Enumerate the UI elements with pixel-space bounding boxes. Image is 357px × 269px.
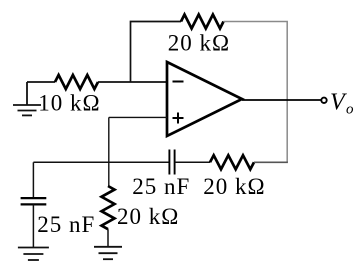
wire: left branch vertical to C1: [32, 162, 34, 198]
svg-text:20 kΩ: 20 kΩ: [117, 204, 179, 229]
capacitor 25 nF series C2: [169, 150, 174, 175]
svg-text:10 kΩ: 10 kΩ: [38, 91, 100, 116]
resistor 10 kOhm input R2: [55, 75, 98, 89]
svg-text:20 kΩ: 20 kΩ: [203, 174, 265, 199]
op-amp plus sign: [173, 113, 184, 124]
ground (under C1): [18, 248, 49, 261]
capacitor 25 nF shunt C1: [21, 198, 47, 204]
wire: top feedback right segment + right vertical down to RC feedback: [224, 22, 288, 163]
wire: op-amp output: [242, 99, 321, 101]
wire: R2 to inverting input: [98, 81, 167, 83]
wire: noninverting input horizontal: [109, 116, 167, 118]
output terminal circle: [321, 98, 326, 103]
svg-text:25 nF: 25 nF: [132, 174, 190, 199]
svg-text:20 kΩ: 20 kΩ: [168, 31, 230, 56]
ground (input, top-left): [13, 82, 41, 115]
resistor 20 kOhm feedback R4: [210, 155, 254, 169]
wire: noninverting input vertical down to R3: [108, 117, 110, 186]
resistor 20 kOhm shunt R3 (vertical): [102, 186, 115, 229]
resistor 20 kOhm feedback R1: [181, 15, 224, 29]
wire: R3 to ground: [107, 229, 109, 247]
wire: feedback top-left (vertical + horizontal to R1): [131, 22, 182, 83]
svg-text:o: o: [346, 102, 354, 118]
wire: C2 to R4: [175, 161, 210, 163]
svg-text:25 nF: 25 nF: [37, 212, 95, 237]
wire: ground to R2: [27, 81, 55, 83]
op-amp U1: [167, 62, 242, 136]
wire: C1 to ground: [32, 204, 34, 247]
wire: R4 to right vertical: [254, 161, 288, 163]
ground (under R3): [94, 247, 122, 259]
wire: bottom node horizontal left of C2: [33, 161, 169, 163]
op-amp minus sign: [173, 81, 184, 83]
svg-text:V: V: [330, 89, 347, 115]
